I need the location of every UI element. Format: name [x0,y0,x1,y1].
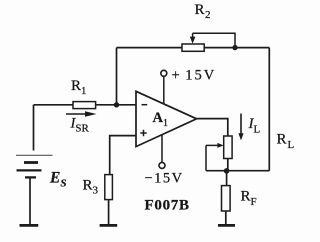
battery Es plate short thick (cell 1 -) [24,161,38,164]
svg-text:R2: R2 [195,2,211,21]
svg-text:RF: RF [241,189,257,209]
svg-text:−15V: −15V [145,171,184,187]
wire: battery bottom lead [29,177,31,224]
svg-text:R1: R1 [71,78,87,97]
wire: R1 to inverting input [96,104,136,106]
node: RF junction dot [224,168,230,174]
wire: R2 net left segment [117,47,183,49]
wire: RF top stub [226,171,228,186]
wire: -15V lead from op-amp bottom [161,135,163,163]
op-amp inverting input mark [142,104,148,106]
wire: RF bottom lead [225,211,227,225]
resistor R3 body [105,175,113,200]
svg-text:+15V: +15V [172,68,217,84]
svg-text:IL: IL [248,116,261,136]
node: R2 wiper tie junction dot [232,45,237,50]
wire: RL wiper return [205,145,207,170]
-15V supply terminal circle [159,162,165,168]
wire: R2 wiper tie loop [193,33,235,47]
ground terminal bar under battery [20,224,39,227]
wire: +15V lead to op-amp top [163,76,165,104]
+15V supply terminal circle [161,70,167,76]
node: feedback junction dot on input wire [114,102,119,107]
ground terminal bar under R3 [100,224,118,227]
wire: R2 net right segment [204,47,269,49]
svg-text:R3: R3 [83,178,99,197]
svg-text:ISR: ISR [70,116,90,135]
wire: battery top lead up-left [33,105,35,151]
battery Es plate long thin (cell 1 +) [16,154,53,156]
wire: feedback vertical from R2 down to junction [116,48,118,105]
wire: input wire left segment to R1 [34,104,74,106]
ground terminal bar under RF [218,224,235,227]
wire: non-inverting input lead [110,136,136,175]
potentiometer R2 body [182,44,204,51]
wire: right vertical rail [268,48,270,171]
battery Es plate short (cell 2 -) [25,176,36,178]
wire: RL bottom stub [227,159,229,171]
variable load resistor RL body [224,136,232,159]
svg-text:F007B: F007B [145,198,190,214]
current arrow ISR under R1 [66,113,88,115]
R2 wiper arrow [192,33,194,37]
svg-text:RL: RL [277,132,295,152]
op-amp A1 triangle [136,91,197,146]
current arrow IL [240,114,242,135]
resistor R1 body [73,102,96,109]
wire: op-amp output to RL [197,119,228,136]
RL wiper arrow [206,144,218,146]
wire: R3 bottom lead [108,200,110,225]
svg-text:ES: ES [49,170,66,190]
resistor RF body [222,186,231,211]
wire: bottom node line [206,170,269,172]
battery Es plate long (cell 2 +) [17,169,42,171]
op-amp non-inverting input mark [140,130,146,136]
